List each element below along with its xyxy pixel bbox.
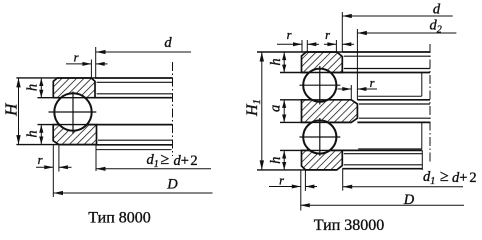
dimension d: extension line at bore — [95, 47, 97, 78]
svg-text:d1≥d+2: d1≥d+2 — [147, 151, 200, 170]
dimension d (right fig): extension + line + arrow — [341, 12, 343, 52]
svg-text:H: H — [2, 102, 21, 117]
gap1 cage lines — [358, 95, 422, 97]
ball centerline vertical — [72, 92, 74, 134]
svg-text:D: D — [403, 192, 415, 208]
svg-text:a: a — [268, 105, 284, 112]
svg-text:r: r — [279, 174, 284, 188]
svg-text:D: D — [166, 177, 178, 193]
svg-text:d: d — [164, 35, 172, 51]
svg-text:h: h — [25, 130, 41, 137]
r third (right fig): extensions + arrows — [350, 85, 352, 100]
bearing axis (right fig, dash-dot) — [429, 44, 431, 162]
bearing axis (dash-dot) — [172, 62, 174, 156]
gap3 vertical below bottom band — [421, 150, 423, 170]
svg-text:r: r — [287, 28, 292, 42]
H dimension line with arrows — [18, 78, 20, 145]
svg-text:d1≥d+2: d1≥d+2 — [423, 168, 479, 187]
ball 2 (lower) — [303, 120, 336, 153]
dimension r top: extension line at chamfer — [90, 60, 92, 78]
svg-text:d2: d2 — [430, 18, 442, 36]
ball 2 crosshair — [319, 118, 321, 156]
h top dimension (right fig) — [280, 72, 342, 74]
H extension lines — [16, 77, 95, 79]
r bottom extension lines — [52, 144, 54, 197]
r bottom (right fig): extensions + arrows — [300, 170, 302, 211]
d1 extension (right fig) — [342, 169, 344, 191]
top washer block (shaft washer, hatched section) — [53, 78, 95, 98]
r bottom dimension arrows — [36, 166, 53, 168]
dimension d: line and arrow — [96, 51, 191, 53]
bottom washer band lines (right fig) — [342, 149, 422, 151]
svg-text:r: r — [74, 51, 79, 65]
a dimension (right fig) — [280, 99, 351, 101]
D extension + dimension line with arrow (right fig) — [300, 204, 464, 206]
r top dimension arrows — [66, 63, 91, 65]
top washer block (right fig, hatched) — [302, 52, 343, 73]
svg-text:r: r — [38, 153, 43, 167]
gap2 cage lines — [358, 148, 422, 150]
svg-text:d: d — [433, 2, 441, 18]
middle washer band lines (right fig) — [357, 99, 430, 101]
svg-text:Тип 38000: Тип 38000 — [314, 217, 385, 234]
bottom washer side-view band lines — [97, 124, 173, 126]
svg-text:h: h — [268, 157, 284, 164]
svg-text:h: h — [25, 84, 41, 91]
r second (right fig): extensions + arrows — [335, 40, 337, 52]
top washer band lines (right fig) — [342, 51, 430, 53]
ball centerline horizontal — [49, 111, 97, 113]
svg-text:h: h — [268, 58, 284, 65]
d1 extension line — [95, 145, 97, 171]
svg-text:r: r — [325, 28, 330, 42]
lower auxiliary line below bottom washer — [96, 149, 172, 151]
dimension d2: extension + line + arrow — [356, 29, 358, 100]
D extension line uses r ext; D dimension line with arrow — [54, 192, 213, 194]
svg-text:Тип 8000: Тип 8000 — [88, 210, 151, 227]
svg-text:r: r — [370, 76, 375, 90]
h bottom dimension (left fig) — [38, 124, 97, 126]
top washer side-view band lines — [95, 77, 173, 79]
svg-text:H1: H1 — [244, 99, 263, 117]
ball 1 (upper) — [303, 69, 336, 102]
r first (right fig): extensions + arrows — [301, 40, 303, 52]
bottom washer block (right fig, hatched) — [302, 150, 343, 170]
d1 dimension line with arrow (right fig) — [343, 186, 463, 188]
label H1 (rotated) — [244, 99, 263, 117]
H1 dimension line with arrows — [261, 52, 263, 170]
d1 dimension line with arrow — [96, 168, 211, 170]
bottom washer block (housing washer, hatched section) — [53, 125, 96, 145]
ball — [54, 93, 91, 130]
middle washer block (right fig, hatched) — [302, 100, 358, 123]
h bottom dimension (right fig) — [280, 149, 342, 151]
h top dimension (left fig) — [38, 97, 96, 99]
H1 extension lines — [257, 51, 342, 53]
ball 1 crosshair — [319, 66, 321, 105]
